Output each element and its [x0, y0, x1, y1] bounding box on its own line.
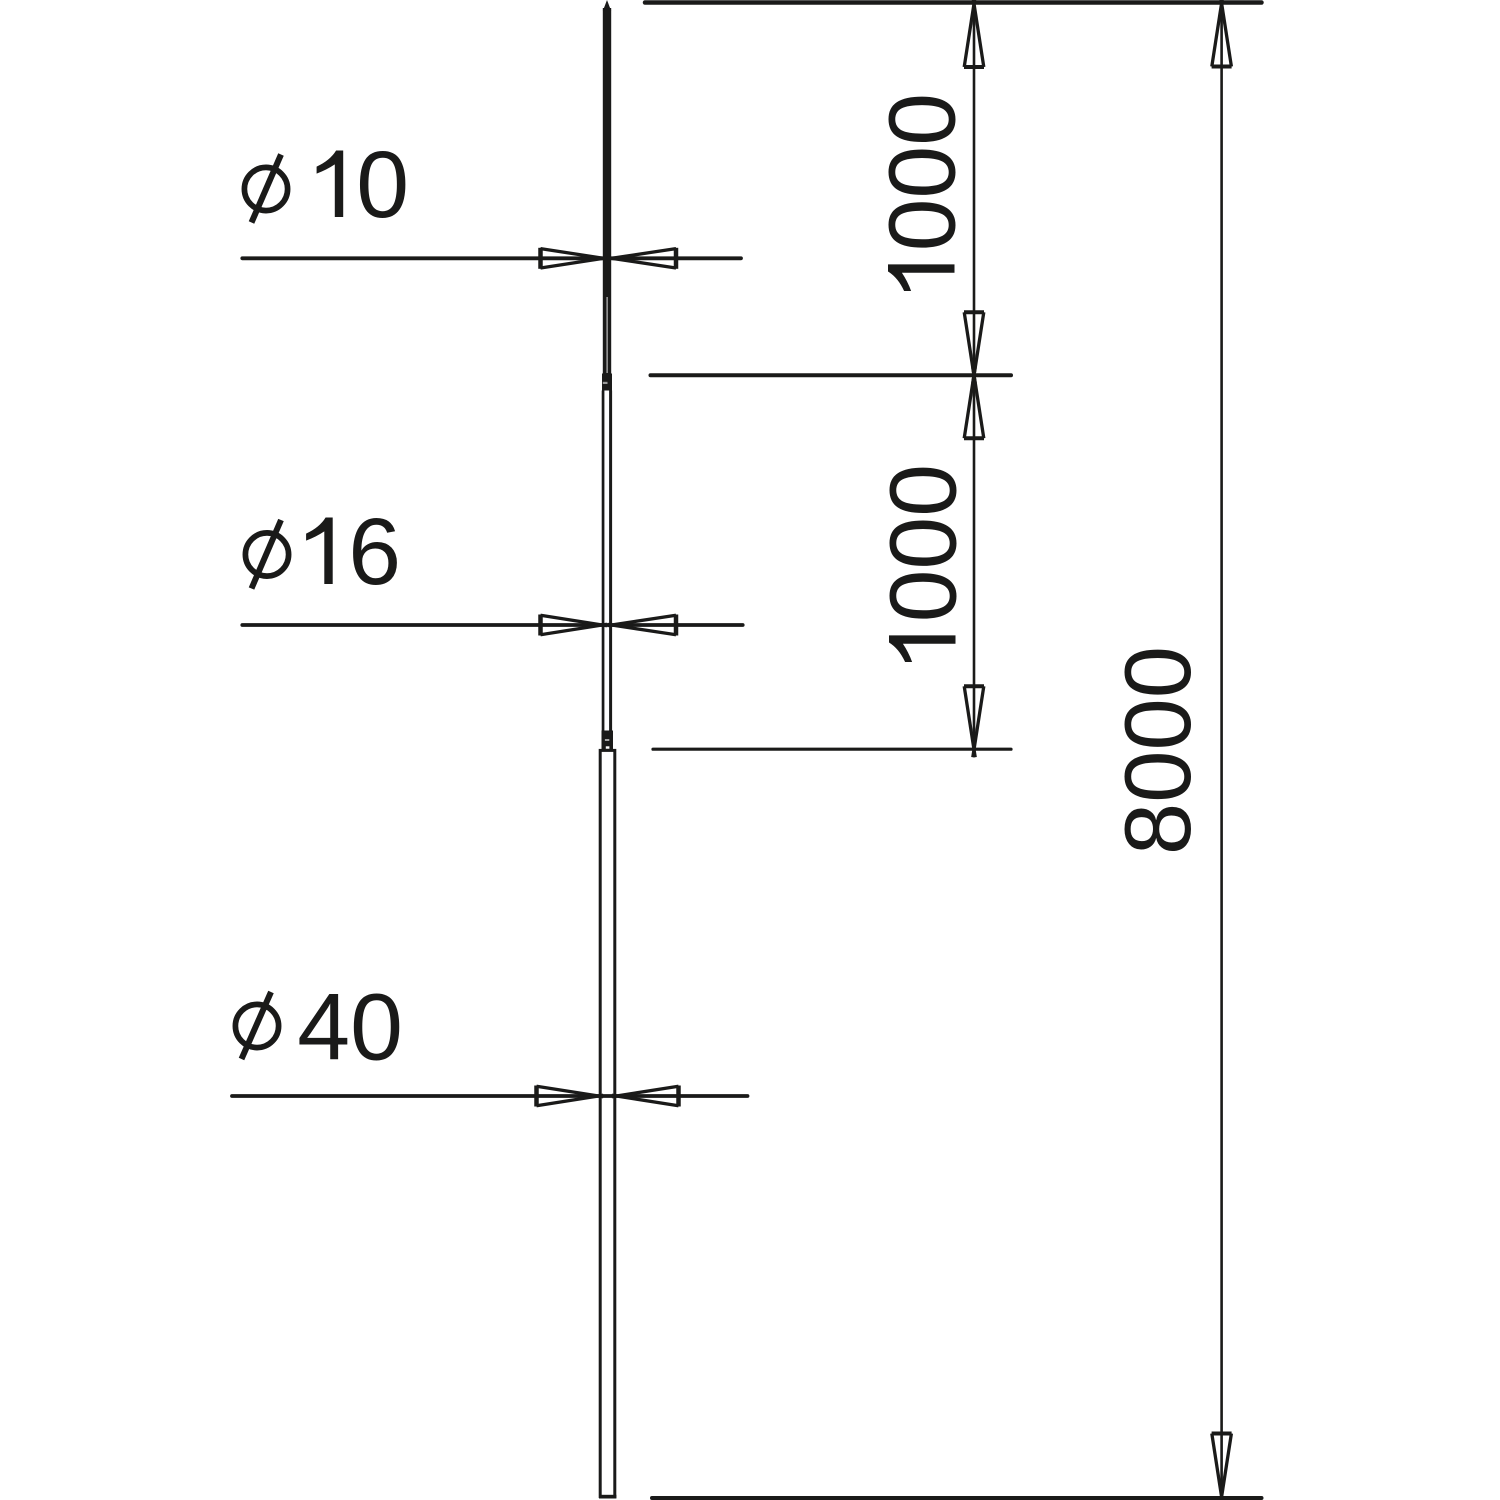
callout d16 dimension line [242, 623, 742, 627]
extension line top [645, 0, 1262, 5]
rod second section with light core [603, 296, 611, 374]
dimension text 1000 lower [871, 464, 977, 662]
callout d40 dimension line [232, 1094, 748, 1098]
svg-text:8000: 8000 [1105, 646, 1210, 855]
coupling sleeve 1 [602, 374, 612, 391]
extension line at 2000 [653, 748, 1011, 751]
coupling sleeve 2 [602, 731, 614, 750]
d40 tube outline [600, 750, 615, 1496]
arrow up 8000 top [1212, 0, 1232, 67]
callout d16 left bowtie arrow [541, 615, 608, 636]
callout d40 right bowtie arrow [612, 1086, 679, 1107]
rod upper solid section d10 [603, 8, 611, 296]
d40 tube bottom cap [599, 1495, 616, 1499]
dimension line 1000 lower [973, 375, 976, 749]
arrow down at 2000 mark [964, 686, 984, 757]
callout d40 diameter symbol [235, 992, 278, 1059]
callout d40 left bowtie arrow [537, 1086, 604, 1107]
dimension line 8000 [1220, 3, 1223, 1497]
extension line bottom [652, 1496, 1262, 1500]
callout d10 dimension line [242, 256, 741, 260]
dimension text 1000 upper [870, 93, 976, 291]
svg-text:000: 000 [870, 93, 976, 252]
dimension line 1000 upper [973, 4, 976, 375]
callout d10 left bowtie arrow [541, 248, 609, 269]
extension line at 1000 [651, 373, 1012, 377]
arrow up below 1000 mark [964, 367, 984, 438]
callout d10 right bowtie arrow [607, 248, 676, 269]
callout d16 diameter symbol [245, 520, 288, 589]
d16 tube right edge [609, 391, 612, 731]
arrow down at 1000 mark [964, 312, 984, 383]
rod tip [603, 0, 611, 11]
svg-text:0: 0 [356, 132, 409, 238]
arrow up at top (1000) [964, 0, 984, 67]
svg-text:40: 40 [297, 975, 403, 1081]
callout d16 right bowtie arrow [608, 615, 677, 636]
d16 tube left edge [602, 391, 605, 731]
callout d16 value label [306, 499, 401, 605]
callout d10 diameter symbol [244, 155, 287, 223]
svg-text:6: 6 [348, 499, 401, 605]
svg-text:000: 000 [871, 464, 977, 623]
arrow down 8000 bottom [1212, 1434, 1232, 1500]
callout d10 value label [317, 132, 409, 238]
